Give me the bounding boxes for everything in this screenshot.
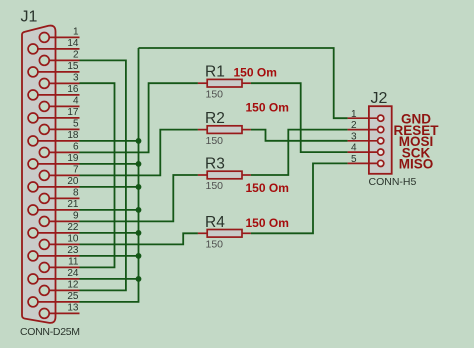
svg-text:4: 4 [73,95,79,106]
J1 pin 8 [39,194,49,204]
wire J1 pin2 to J1 pin12 loopback [80,60,126,290]
svg-text:2: 2 [73,49,79,60]
svg-text:R2: R2 [205,110,225,127]
J2 pin 5 [348,162,378,164]
svg-text:13: 13 [67,302,79,313]
svg-text:3: 3 [351,131,357,142]
svg-text:150: 150 [206,135,224,147]
svg-text:14: 14 [67,38,79,49]
svg-text:J1: J1 [21,9,38,26]
wire ground bus to J2 pin1 [139,48,348,118]
J1 pin 12 [39,286,49,296]
J1 pin 16 [28,90,38,100]
resistor R2 [198,129,207,131]
J1 pin 11 [39,263,49,273]
svg-text:150 Om: 150 Om [246,216,289,230]
svg-text:150 Om: 150 Om [246,101,289,115]
svg-text:18: 18 [67,130,79,141]
svg-text:20: 20 [67,176,79,187]
junction dot [136,161,142,167]
J1 pin 18 [28,136,38,146]
J1 pin 5 [39,124,49,134]
J1 pin 1 [39,33,49,43]
wire R4 output to J2 pin5 MISO [251,163,348,233]
ground bus vertical [80,48,139,302]
J2 pin 1 [348,117,378,119]
svg-text:1: 1 [351,109,357,120]
J1 pin 3 [39,79,49,89]
wire J1 ground pin row y=255.9 [80,255,139,257]
J1 pin 21 [28,205,38,215]
resistor R1 [198,82,207,84]
connector J2 [369,106,392,174]
J1 pin 7 [39,171,49,181]
J1 pin 15 [28,67,38,77]
junction dot [136,276,142,282]
J2 pin 4 [348,151,378,153]
svg-text:R3: R3 [205,156,225,173]
J1 pin 14 [28,44,38,54]
svg-text:CONN-H5: CONN-H5 [369,176,417,188]
svg-text:22: 22 [67,222,79,233]
J1 pin 17 [28,113,38,123]
svg-text:15: 15 [67,61,79,72]
J1 pin 2 [39,56,49,66]
J1 pin 25 [28,297,38,307]
svg-text:R4: R4 [205,214,225,231]
svg-text:MISO: MISO [399,157,434,172]
svg-text:9: 9 [73,210,79,221]
svg-text:19: 19 [67,153,79,164]
wire R3 output to J2 pin2 RESET [251,130,348,175]
svg-text:7: 7 [73,164,79,175]
svg-text:150 Om: 150 Om [234,66,277,80]
J2 pin 2 [348,129,378,131]
svg-text:150: 150 [206,88,224,100]
svg-text:R1: R1 [205,64,225,81]
wire J1 ground pin row y=186.9 [80,186,139,188]
svg-text:1: 1 [73,26,79,37]
wire J1 pin10 to R4 input [80,233,198,244]
wire J1 ground pin row y=140.9 [80,140,139,142]
resistor R4 [198,232,207,234]
svg-text:150 Om: 150 Om [246,181,289,195]
J1 pin 9 [39,217,49,227]
svg-text:150: 150 [206,180,224,192]
svg-text:8: 8 [73,187,79,198]
svg-text:4: 4 [351,143,357,154]
svg-text:23: 23 [67,245,79,256]
connector J1 [22,26,56,323]
J1 pin 13 [39,309,49,319]
svg-text:2: 2 [351,120,357,131]
resistor R3 [198,174,207,176]
J1 pin 10 [39,240,49,250]
wire J1 ground pin row y=163.9 [80,163,139,165]
junction dot [136,207,142,213]
svg-text:12: 12 [67,279,79,290]
svg-text:11: 11 [68,256,79,267]
svg-text:6: 6 [73,141,79,152]
svg-text:17: 17 [67,107,79,118]
wire R2 output to J2 pin3 MOSI [251,130,348,141]
svg-text:5: 5 [73,118,79,129]
svg-text:25: 25 [67,291,79,302]
junction dot [136,138,142,144]
wire J1 ground pin row y=209.9 [80,209,139,211]
junction dot [136,184,142,190]
junction dot [136,253,142,259]
svg-text:24: 24 [67,268,79,279]
svg-text:10: 10 [67,233,79,244]
svg-text:150: 150 [206,239,224,251]
J1 pin 19 [28,159,38,169]
wire J1 pin6 to R1 input [80,83,198,152]
wire J1 ground pin row y=278.9 [80,278,139,280]
wire J1 pin9 to R3 input [80,175,198,221]
svg-text:J2: J2 [371,90,388,107]
J1 pin 23 [28,251,38,261]
svg-text:21: 21 [67,199,79,210]
svg-text:CONN-D25M: CONN-D25M [20,326,80,338]
svg-text:5: 5 [351,154,357,165]
wire J1 pin7 to R2 input [80,130,198,176]
J1 pin 4 [39,102,49,112]
svg-text:3: 3 [73,72,79,83]
svg-text:16: 16 [67,84,79,95]
wire J1 pin3 to J1 pin11 loopback [80,83,115,267]
wire R1 output to J2 pin4 SCK [251,83,348,152]
J1 pin 20 [28,182,38,192]
J1 pin 6 [39,148,49,158]
J1 pin 22 [28,228,38,238]
J1 pin 24 [28,274,38,284]
J2 pin 3 [348,140,378,142]
wire J1 ground pin row y=232.9 [80,232,139,234]
junction dot [136,230,142,236]
